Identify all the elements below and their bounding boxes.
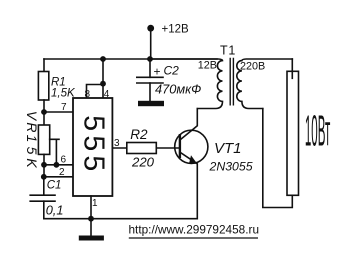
wire pin2 node down to C1 [43, 177, 45, 195]
svg-text:R2: R2 [130, 127, 148, 142]
svg-text:4: 4 [104, 89, 110, 100]
svg-text:+: + [154, 65, 161, 79]
svg-text:1,5K: 1,5K [51, 88, 76, 100]
wire R2 to base of VT1 [156, 147, 180, 149]
svg-text:7: 7 [61, 102, 67, 113]
transistor VT1 emitter [180, 152, 197, 219]
node junction bracket [100, 81, 106, 87]
svg-text:10Вт: 10Вт [305, 106, 331, 155]
resistor R2 [127, 143, 157, 154]
svg-text:470мкФ: 470мкФ [155, 82, 201, 97]
svg-text:0,1: 0,1 [46, 202, 64, 217]
node junction wiper / pin6 [54, 162, 60, 168]
lamp tube [287, 71, 299, 195]
node junction rail / C2 [147, 56, 153, 62]
node junction VR1 bottom / pin6 [41, 162, 47, 168]
wire pin 7 [44, 111, 73, 113]
node junction top rail to pin4 [100, 56, 106, 62]
ground bar [79, 236, 104, 241]
transformer T1 primary winding [150, 59, 223, 108]
potentiometer VR1 [38, 125, 49, 154]
emitter arrow [189, 155, 197, 164]
svg-text:+12В: +12В [162, 23, 190, 35]
node junction pin1 / ground rail [88, 216, 94, 222]
wire rail to C2 [149, 59, 151, 77]
node junction pin2 / C1 [41, 174, 47, 180]
svg-text:8: 8 [85, 89, 91, 100]
wire left rail down to R1 [43, 59, 45, 72]
wire R1 bottom to VR1 top [43, 100, 45, 125]
svg-text:T1: T1 [220, 43, 236, 57]
transistor VT1 collector [180, 109, 197, 140]
svg-text:220В: 220В [240, 60, 265, 72]
transistor VT1 circle [175, 130, 208, 163]
wire pin 3 to R2 [112, 147, 126, 149]
wire +12V terminal down to top rail [150, 28, 152, 59]
transformer T1 secondary winding [237, 59, 292, 108]
url underline [129, 237, 258, 239]
op bracket pins 8 and 4 [87, 59, 104, 98]
wire C1 bottom to ground rail [44, 201, 197, 219]
svg-text:555: 555 [78, 115, 110, 175]
wiper of VR1 [50, 139, 59, 165]
transistor VT1 base bar [179, 135, 181, 157]
wire VR1 bottom to pin2 node [43, 154, 45, 177]
terminal +12V dot [147, 25, 154, 32]
svg-text:C1: C1 [47, 180, 62, 192]
ground lead [90, 219, 92, 236]
svg-text:220: 220 [131, 154, 155, 169]
svg-text:2N3055: 2N3055 [209, 159, 253, 173]
wire pin 6 [44, 164, 73, 166]
svg-text:2: 2 [59, 167, 65, 178]
svg-text:5K: 5K [24, 147, 40, 172]
capacitor C1 [30, 195, 55, 201]
resistor R1 [38, 72, 48, 101]
wire pin 1 to ground [90, 196, 92, 219]
wire secondary bottom to lamp [263, 109, 293, 208]
svg-text:C2: C2 [164, 63, 180, 77]
wire C2 to its ground [149, 83, 151, 101]
svg-text:3: 3 [114, 138, 120, 149]
svg-text:VR1: VR1 [24, 111, 40, 145]
lamp top electrode [291, 59, 293, 78]
svg-text:VT1: VT1 [214, 140, 242, 157]
ground bar C2 [138, 101, 164, 106]
capacitor C2 [137, 77, 163, 83]
timer U1 555 body [73, 98, 112, 196]
wire top rail from left corner to transformer primary [44, 58, 217, 60]
wire pin 2 [44, 176, 73, 178]
svg-text:http://www.299792458.ru: http://www.299792458.ru [129, 223, 260, 237]
node junction R1/VR1/pin7 [41, 109, 47, 115]
svg-text:12В: 12В [198, 59, 217, 71]
svg-text:1: 1 [92, 198, 98, 209]
svg-text:6: 6 [61, 155, 67, 166]
transformer T1 core [230, 59, 233, 105]
